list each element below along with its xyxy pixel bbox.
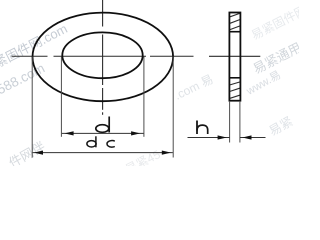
extension line dc right <box>172 57 174 158</box>
arrowhead dc left <box>34 151 43 155</box>
front view vertical centerline <box>102 0 104 115</box>
arrowhead dc right <box>162 151 171 155</box>
label h (arch and leg) <box>197 125 208 134</box>
label d (bowl) <box>96 125 109 133</box>
dimension line d <box>62 132 144 134</box>
extension line d right <box>143 57 145 137</box>
extension line h right <box>239 101 241 143</box>
hatch top section <box>230 13 240 29</box>
label dc letter c <box>107 141 115 148</box>
arrowhead d left <box>64 131 73 135</box>
dimension line h left part <box>188 137 230 139</box>
arrowhead d right <box>131 131 140 135</box>
label dc letter d (stem) <box>95 136 97 147</box>
extension line dc left <box>31 57 33 158</box>
dimension line dc <box>33 152 173 154</box>
front view horizontal centerline <box>12 55 194 57</box>
extension line d left <box>60 57 62 137</box>
arrowhead h pointing right <box>218 135 227 139</box>
hatch bottom section <box>230 82 240 98</box>
extension line h left <box>229 101 231 143</box>
section hole bottom edge <box>229 77 240 79</box>
label dc letter d (bowl) <box>87 141 96 147</box>
label h (stem) <box>196 121 198 135</box>
arrowhead h pointing left <box>242 135 251 139</box>
washer inner circle (d) <box>62 32 142 78</box>
side view centerline <box>209 55 260 57</box>
washer section outline <box>229 13 240 101</box>
section hole top edge <box>229 31 240 33</box>
label d (stem) <box>108 117 110 133</box>
dimension line h right part <box>240 137 266 139</box>
washer outer circle (dc) <box>33 13 174 102</box>
